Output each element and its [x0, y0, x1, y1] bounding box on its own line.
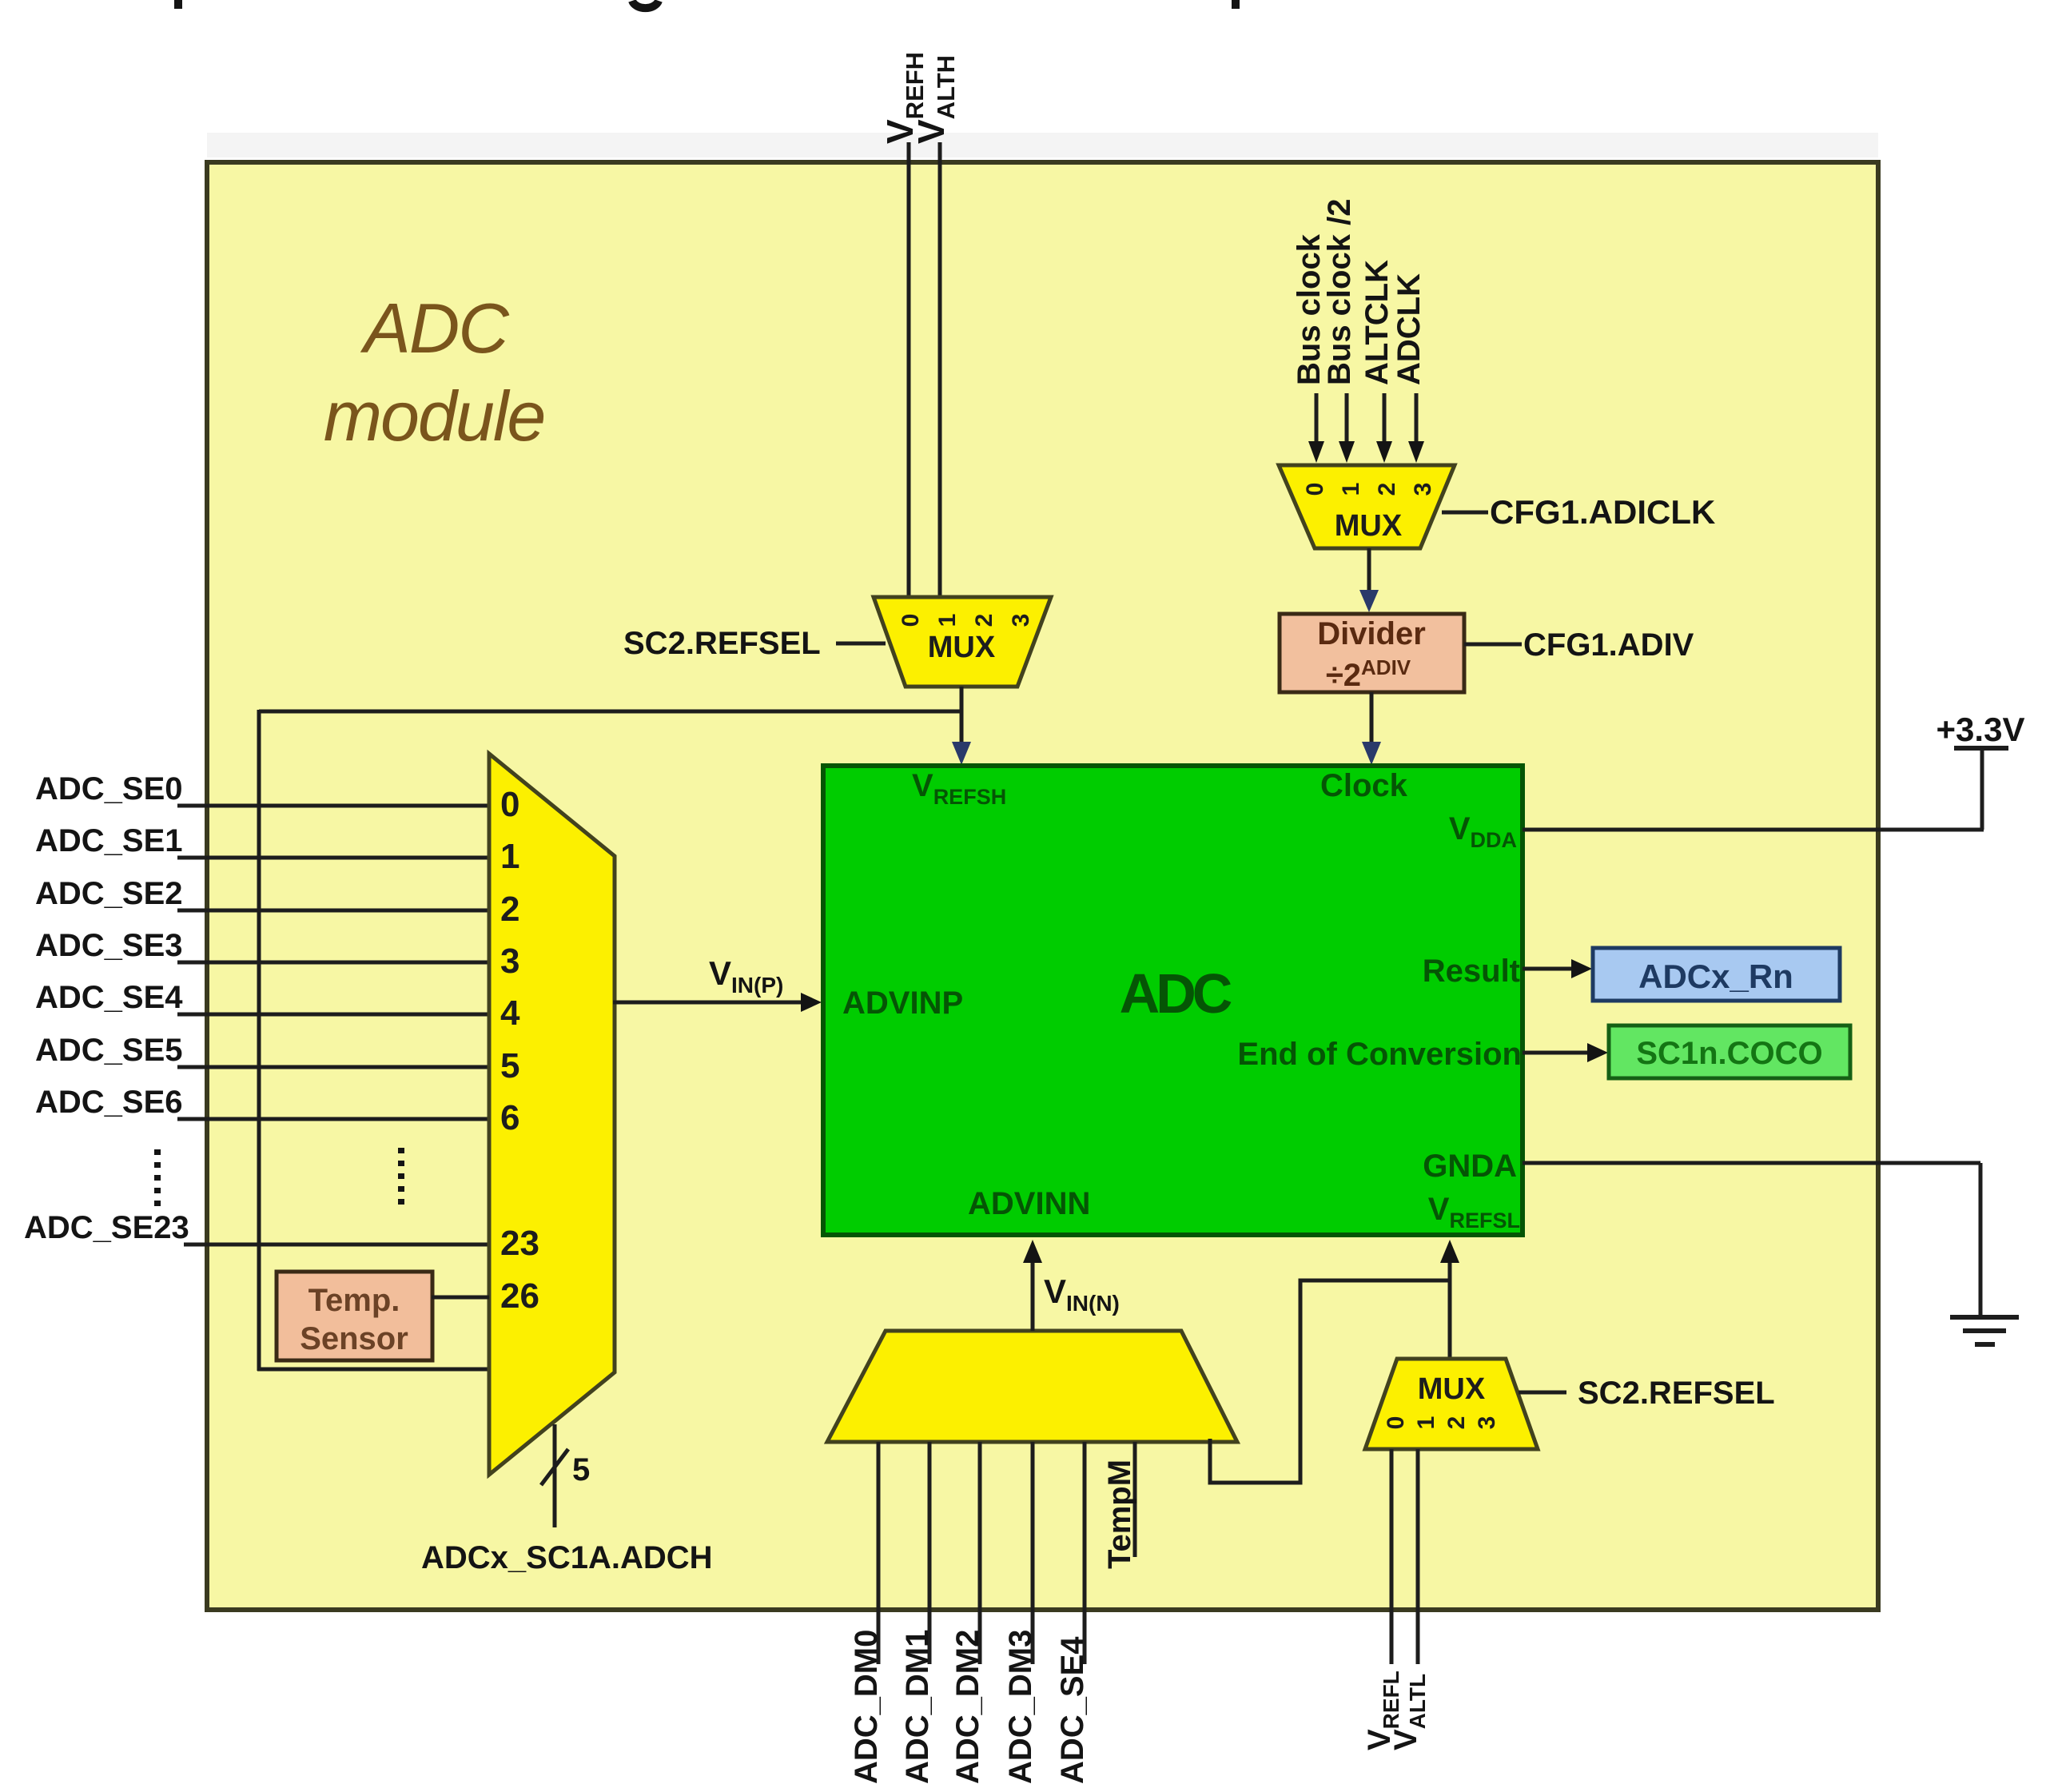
- svg-text:Sensor: Sensor: [300, 1321, 408, 1356]
- svg-text:Temp.: Temp.: [308, 1283, 400, 1318]
- arrow into ADC Clock: [1362, 742, 1381, 765]
- svg-text:1: 1: [500, 837, 519, 876]
- svg-text:5: 5: [500, 1046, 519, 1085]
- svg-text:0: 0: [1383, 1416, 1409, 1430]
- svg-text:ADC_SE4: ADC_SE4: [1055, 1636, 1090, 1784]
- wire End of Conversion: [1523, 1051, 1592, 1055]
- wire VREFSL tap to negative mux: [1210, 1280, 1450, 1483]
- svg-text:CFG1.ADIV: CFG1.ADIV: [1523, 627, 1694, 663]
- wire VREFL: [1390, 1449, 1394, 1664]
- svg-text:ALTCLK: ALTCLK: [1359, 260, 1395, 385]
- wire SC2.REFSEL to mux: [836, 642, 886, 646]
- wire mux U2 output: [1367, 548, 1371, 593]
- node ADC_DM0 label: [849, 1630, 884, 1784]
- wire ADC_SE6: [177, 1117, 489, 1121]
- bus width slash: [541, 1449, 568, 1485]
- node ADCLK label: [1391, 273, 1427, 385]
- wire ADC_SE4 (diff): [1083, 1442, 1087, 1664]
- arrow into ADC VREFSL: [1440, 1240, 1459, 1263]
- node ADC_DM3 label: [1003, 1630, 1038, 1784]
- svg-text:SC1n.COCO: SC1n.COCO: [1636, 1036, 1822, 1071]
- svg-text:ADC_SE0: ADC_SE0: [35, 771, 183, 806]
- wire VDDA: [1523, 828, 1984, 832]
- arrow ADCLK: [1408, 441, 1424, 463]
- wire CFG1.ADICLK to mux: [1442, 511, 1488, 515]
- svg-text:ADC_SE3: ADC_SE3: [35, 928, 183, 963]
- node Bus clock label: [1292, 233, 1327, 385]
- wire SC2.REFSEL to mux U3: [1519, 1391, 1566, 1395]
- wire ADC_SE23: [184, 1243, 489, 1247]
- svg-text:module: module: [324, 376, 545, 456]
- wire mux U3 output (VREFSL net): [1448, 1260, 1452, 1359]
- svg-text:ADC_DM2: ADC_DM2: [950, 1630, 985, 1784]
- flag SC1n.COCO: [1609, 1025, 1850, 1078]
- svg-text:ADCx_Rn: ADCx_Rn: [1638, 958, 1793, 995]
- wire ADC_SE3: [177, 961, 489, 965]
- wire TempM: [1133, 1442, 1137, 1557]
- svg-text:26: 26: [500, 1276, 539, 1316]
- wire divider output (ADC clock): [1370, 692, 1374, 743]
- svg-text:GNDA: GNDA: [1423, 1149, 1517, 1184]
- svg-text:ADC_SE6: ADC_SE6: [35, 1085, 183, 1120]
- mux U3 SC2.REFSEL (reference low select): [1365, 1359, 1538, 1449]
- wire ADCLK: [1415, 393, 1419, 444]
- wire VALTH: [938, 142, 942, 597]
- svg-text:3: 3: [1410, 483, 1436, 496]
- mux U1 SC2.REFSEL (reference high select): [874, 597, 1051, 687]
- svg-text:ADVINN: ADVINN: [968, 1186, 1090, 1221]
- wire GNDA vertical: [1979, 1163, 1983, 1317]
- node TempM label: [1102, 1459, 1137, 1569]
- svg-text:ADC_SE23: ADC_SE23: [24, 1210, 189, 1245]
- ground symbol: [1950, 1317, 2019, 1344]
- wire ADC_SE0: [177, 804, 489, 808]
- wire VALTL: [1416, 1449, 1420, 1664]
- cut-off title text fragment 1: [174, 0, 182, 9]
- arrow Bus clock: [1308, 441, 1324, 463]
- svg-text:MUX: MUX: [1418, 1372, 1486, 1406]
- svg-text:3: 3: [1474, 1416, 1500, 1430]
- wire ADC_SE2: [177, 909, 489, 913]
- arrow Bus clock /2: [1339, 441, 1355, 463]
- faint shadow band above module border: [207, 133, 1878, 157]
- arrow into divider: [1359, 590, 1379, 612]
- wire ALTCLK: [1383, 393, 1387, 444]
- wire VREFSH tap junction: [259, 710, 961, 714]
- svg-text:ADC_SE4: ADC_SE4: [35, 980, 183, 1015]
- node VALTH label: [910, 55, 960, 144]
- svg-text:23: 23: [500, 1224, 539, 1263]
- supply rail bar: [1954, 746, 2008, 751]
- svg-text:Result: Result: [1423, 954, 1520, 989]
- arrow into ADVINP: [801, 993, 822, 1012]
- arrow into ADVINN: [1023, 1240, 1042, 1263]
- svg-text:2: 2: [500, 890, 519, 929]
- wire mux U1 output (VREFSH net): [960, 687, 964, 745]
- wire GNDA: [1523, 1161, 1980, 1165]
- wire VREFH: [907, 142, 911, 597]
- svg-text:2: 2: [1443, 1416, 1470, 1430]
- arrow Result: [1571, 959, 1592, 978]
- temp sensor block: [277, 1272, 432, 1360]
- wire VREFSH tap vertical: [257, 710, 261, 1371]
- svg-text:2: 2: [1374, 483, 1400, 496]
- node ADC_DM2 label: [950, 1630, 985, 1784]
- svg-text:ADCLK: ADCLK: [1391, 273, 1427, 385]
- svg-text:ADC_SE2: ADC_SE2: [35, 876, 183, 911]
- svg-text:0: 0: [898, 614, 924, 627]
- wire ADC_DM2: [978, 1442, 982, 1664]
- arrow ALTCLK: [1376, 441, 1392, 463]
- node VREFH label: [879, 52, 929, 144]
- mux U2 CFG1.ADICLK (clock select): [1279, 465, 1455, 548]
- svg-text:Clock: Clock: [1320, 768, 1408, 803]
- svg-text:6: 6: [500, 1098, 519, 1137]
- svg-text:2: 2: [971, 614, 997, 627]
- wire CFG1.ADIV to divider: [1464, 643, 1522, 647]
- svg-text:4: 4: [500, 994, 520, 1033]
- svg-text:SC2.REFSEL: SC2.REFSEL: [623, 626, 821, 661]
- svg-text:TempM: TempM: [1102, 1459, 1137, 1569]
- wire +3.3V vertical: [1980, 748, 1984, 830]
- svg-text:Divider: Divider: [1317, 616, 1426, 651]
- svg-text:MUX: MUX: [1335, 509, 1403, 543]
- svg-text:1: 1: [934, 614, 961, 627]
- svg-text:3: 3: [1008, 614, 1034, 627]
- svg-text:MUX: MUX: [928, 631, 996, 664]
- svg-text:3: 3: [500, 942, 519, 981]
- ADC core block: [823, 766, 1523, 1235]
- ellipsis dots inside mux: [398, 1148, 404, 1210]
- svg-text:SC2.REFSEL: SC2.REFSEL: [1578, 1376, 1775, 1411]
- wire Bus clock /2: [1345, 393, 1349, 444]
- node ALTCLK label: [1359, 260, 1395, 385]
- svg-text:+3.3V: +3.3V: [1937, 711, 2025, 748]
- svg-text:ADC: ADC: [360, 289, 510, 368]
- node ADC_SE4 label (bottom): [1055, 1636, 1090, 1784]
- wire ADC_SE1: [177, 856, 489, 860]
- cut-off title text fragment 3: [1232, 0, 1240, 9]
- wire VIN(N): [1031, 1260, 1035, 1331]
- svg-text:ADCx_SC1A.ADCH: ADCx_SC1A.ADCH: [421, 1540, 713, 1575]
- channel select line with bus slash: [553, 1424, 557, 1527]
- node Bus clock /2 label: [1322, 199, 1357, 385]
- svg-text:End of Conversion: End of Conversion: [1237, 1037, 1522, 1072]
- svg-text:5: 5: [572, 1452, 590, 1487]
- svg-text:Bus clock /2: Bus clock /2: [1322, 199, 1357, 385]
- svg-text:ADC_DM1: ADC_DM1: [900, 1630, 935, 1784]
- svg-text:ADC_DM0: ADC_DM0: [849, 1630, 884, 1784]
- node ADC_DM1 label: [900, 1630, 935, 1784]
- wire ADC_DM0: [877, 1442, 881, 1664]
- wire temp sensor to channel 26: [432, 1296, 489, 1300]
- svg-text:0: 0: [1302, 483, 1328, 496]
- input channel mux (big trapezoid): [401, 754, 615, 1475]
- svg-text:1: 1: [1338, 483, 1364, 496]
- wire Result: [1523, 967, 1576, 971]
- divider block: [1280, 614, 1464, 693]
- label "ADC module": [324, 289, 545, 456]
- wire ADC_SE4: [177, 1013, 489, 1017]
- negative input mux (bottom trapezoid): [827, 1331, 1237, 1442]
- svg-text:ADVINP: ADVINP: [842, 986, 963, 1021]
- arrow into ADC VREFSH: [952, 742, 971, 765]
- cut-off title text fragment 2 (bowl of g): [632, 1, 659, 8]
- wire ADC_DM1: [928, 1442, 932, 1664]
- register ADCx_Rn: [1593, 948, 1840, 1001]
- wire VREFSH tap to input mux: [257, 1368, 489, 1372]
- arrow End of Conversion: [1587, 1043, 1608, 1062]
- wire ADC_SE5: [177, 1065, 489, 1069]
- wire VIN(P): [613, 1001, 806, 1005]
- svg-text:ADC_SE5: ADC_SE5: [35, 1033, 183, 1068]
- svg-text:CFG1.ADICLK: CFG1.ADICLK: [1490, 493, 1715, 531]
- ADC module enclosure box: [207, 162, 1878, 1610]
- svg-text:ADC_SE1: ADC_SE1: [35, 823, 183, 858]
- wire ADC_DM3: [1031, 1442, 1035, 1664]
- svg-text:0: 0: [500, 785, 519, 824]
- wire Bus clock: [1315, 393, 1319, 444]
- ellipsis dots left: [154, 1149, 161, 1209]
- node VALTL label: [1388, 1674, 1430, 1750]
- svg-text:ADC_DM3: ADC_DM3: [1003, 1630, 1038, 1784]
- svg-text:1: 1: [1413, 1416, 1439, 1430]
- svg-text:ADC: ADC: [1120, 962, 1232, 1025]
- node VREFL label: [1362, 1671, 1403, 1750]
